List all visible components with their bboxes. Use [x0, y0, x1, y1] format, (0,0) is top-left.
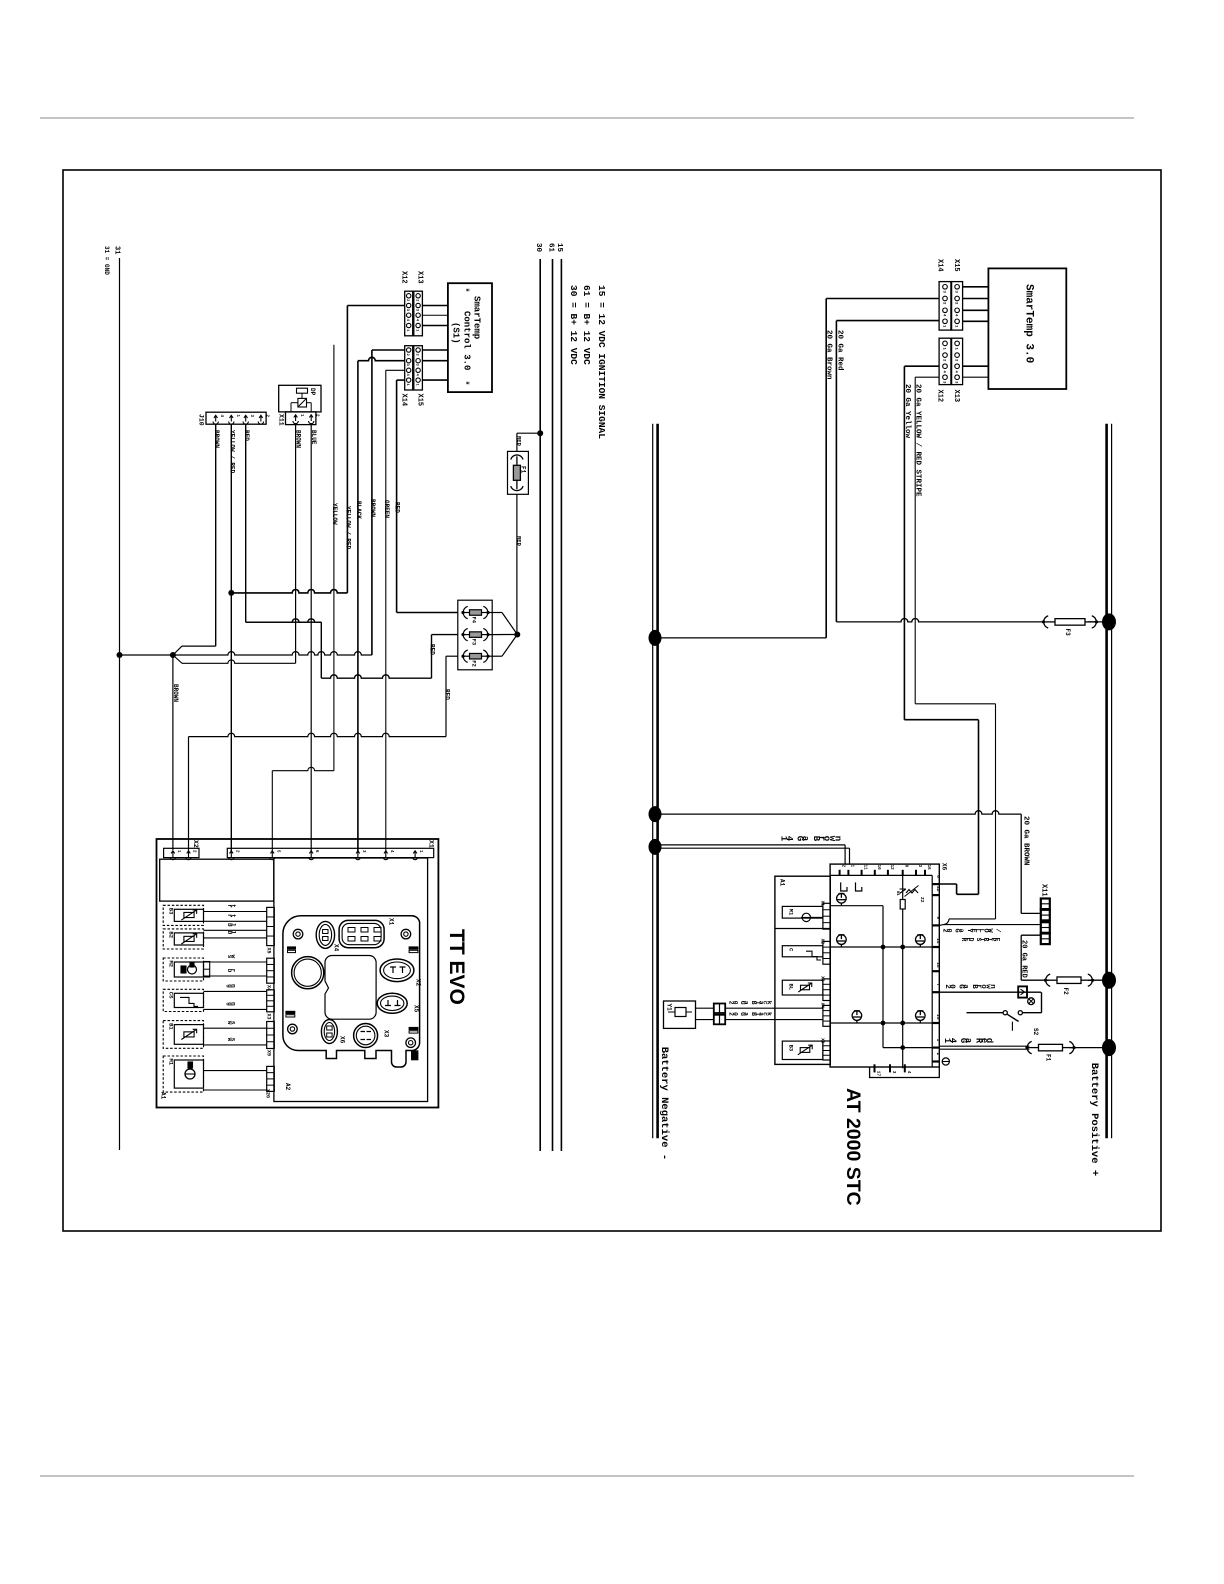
svg-text:22: 22 [935, 886, 941, 892]
svg-text:F1: F1 [1045, 1054, 1052, 1062]
bus 30 [539, 259, 541, 1151]
component B2 [163, 929, 203, 949]
wire ground run to junction [120, 654, 173, 656]
svg-text:X9: X9 [266, 1050, 272, 1056]
svg-text:F3: F3 [1064, 629, 1071, 637]
connector J10 [206, 412, 266, 424]
connector X13 left pair [414, 291, 423, 336]
wire ground diagonal up branch [173, 646, 182, 655]
svg-text:TT EVO: TT EVO [445, 929, 468, 1005]
svg-text:X6: X6 [339, 1036, 346, 1044]
svg-text:15 = 12 VDC IGNITION SIGNAL: 15 = 12 VDC IGNITION SIGNAL [596, 285, 607, 439]
svg-text:a: a [800, 836, 810, 842]
svg-text:X2: X2 [820, 939, 826, 945]
svg-text:k: k [765, 1012, 772, 1016]
svg-text:31 = GND: 31 = GND [103, 246, 110, 275]
connector X11 inline [1041, 899, 1050, 910]
wire J10 yellow/red vertical [230, 424, 232, 851]
svg-text:BROWN: BROWN [213, 430, 220, 448]
wire J10 brown vertical [215, 424, 217, 646]
svg-text:t: t [230, 904, 237, 908]
bottom rule [40, 1475, 1134, 1477]
svg-text:YELLOW / RED: YELLOW / RED [229, 430, 236, 474]
switch S2 [1041, 992, 1043, 1013]
svg-text:X1: X1 [428, 840, 435, 848]
component CS [163, 989, 203, 1011]
svg-text:20 Ga BROWN: 20 Ga BROWN [1021, 816, 1029, 866]
node fuse feed junction [514, 632, 520, 638]
plug X3 round [354, 1024, 378, 1048]
component GL glow [782, 946, 823, 957]
wire brown to X2 pin 1 [172, 655, 174, 850]
M2 sub connector [204, 962, 210, 978]
svg-text:n: n [833, 836, 843, 841]
plug X5 oval [377, 993, 407, 1013]
svg-text:17: 17 [876, 1071, 882, 1077]
svg-text:31: 31 [112, 246, 120, 254]
svg-text:11: 11 [863, 865, 867, 871]
blower circle [292, 957, 324, 989]
svg-text:B3: B3 [787, 1045, 794, 1052]
wire component row bl [204, 937, 267, 939]
svg-text:X13: X13 [416, 271, 424, 284]
connector X11 left [286, 412, 316, 425]
svg-text:DP: DP [309, 388, 316, 396]
wire ground diagonal down branch to X11 brown [173, 655, 182, 663]
plug X1 main connector [339, 920, 384, 947]
svg-text:0: 0 [731, 1012, 738, 1016]
svg-text:X3: X3 [266, 1014, 272, 1020]
svg-text:15: 15 [555, 243, 563, 253]
ECU control box [830, 864, 939, 1067]
solenoid Y1 [664, 1001, 696, 1028]
clip marks [288, 947, 296, 949]
node F3 bus junction [1102, 613, 1116, 630]
wire X11 blue vertical [310, 425, 312, 851]
svg-text:X12: X12 [935, 390, 943, 403]
svg-text:F2: F2 [470, 660, 477, 667]
svg-text:X11: X11 [1040, 884, 1048, 897]
ground reference at pin2 [942, 1058, 949, 1065]
svg-text:YELLOW: YELLOW [331, 503, 338, 525]
svg-text:15: 15 [935, 1014, 941, 1020]
svg-text:SmarTemp 3.0: SmarTemp 3.0 [1023, 284, 1035, 363]
component M2 [163, 958, 203, 981]
wire X14 pin4 red [397, 379, 405, 381]
wire 20 Ga Brown ECU pin7 to switch [939, 991, 1041, 993]
plug X6 oval [321, 1020, 337, 1044]
svg-text:A1: A1 [160, 1092, 167, 1100]
svg-text:0: 0 [945, 928, 953, 932]
wire X15 to S1 [422, 349, 448, 351]
wire 31 rail [119, 258, 121, 1150]
wire X14 pin3 green [386, 369, 405, 371]
component B1 [163, 1021, 203, 1049]
svg-text:k: k [765, 1001, 772, 1005]
component M1 [163, 1056, 203, 1092]
svg-text:X4: X4 [820, 1003, 826, 1009]
svg-text:X6: X6 [941, 863, 948, 871]
svg-text:l: l [230, 931, 237, 935]
fuse F1 right [1027, 1041, 1032, 1053]
mini connector X5 strip [267, 907, 275, 945]
svg-text:H: H [464, 289, 470, 292]
connector X15 left pair [414, 346, 423, 390]
wire component row ws [204, 1027, 267, 1029]
wire ECU diode resistor chain [902, 875, 904, 1068]
svg-text:X15: X15 [416, 394, 424, 407]
wire F2 right [489, 655, 502, 657]
wire F4 left to X14 red [397, 612, 458, 614]
svg-text:YELLOW / RED: YELLOW / RED [344, 506, 351, 550]
svg-text:4: 4 [784, 836, 794, 842]
wire component row gn [204, 990, 267, 992]
svg-text:a: a [743, 1012, 750, 1016]
svg-text:9: 9 [935, 916, 941, 919]
svg-text:t: t [230, 914, 237, 918]
wire X11 brown vertical [295, 425, 297, 664]
heater TT EVO box [157, 839, 439, 1108]
connector X1 strip [227, 848, 433, 857]
plug X4 oval [316, 921, 334, 948]
svg-text:2: 2 [935, 1053, 941, 1056]
svg-text:X3: X3 [383, 1030, 390, 1038]
svg-text:Battery Negative -: Battery Negative - [658, 1047, 670, 1160]
wire X13 to SmarTemp [963, 365, 989, 367]
node junction on 31 rail [117, 652, 123, 658]
svg-text:/: / [994, 928, 1002, 932]
svg-text:Y1: Y1 [666, 1004, 673, 1012]
svg-text:A2: A2 [284, 1083, 291, 1091]
svg-text:X12: X12 [400, 271, 408, 284]
svg-text:61 = B+ 12 VDC: 61 = B+ 12 VDC [581, 285, 592, 365]
wire M1 rows [822, 907, 824, 909]
svg-text:BROWN: BROWN [369, 499, 376, 517]
wire component row rt [204, 911, 267, 913]
component B3 [163, 905, 203, 925]
hole top-right [401, 929, 411, 939]
svg-text:RED: RED [444, 689, 451, 700]
svg-text:RED: RED [243, 430, 250, 441]
component BL flame sensor [782, 980, 823, 995]
svg-text:X4: X4 [332, 944, 339, 952]
connector X14 right pair [939, 282, 951, 331]
wire component row m1 [204, 1089, 267, 1091]
central cutout [325, 955, 376, 1019]
svg-text:E: E [993, 938, 1000, 942]
controller SmarTemp 3.0 box [988, 268, 1066, 389]
wire X12 pin2 yellow/red [347, 305, 404, 307]
svg-text:a: a [963, 1038, 973, 1044]
svg-text:SmarTemp: SmarTemp [472, 296, 482, 339]
inner blank box [160, 859, 274, 901]
wire component row rt [204, 920, 267, 922]
mini connector X3 strip [267, 990, 275, 1012]
hook pins below X6 [841, 882, 847, 891]
svg-text:RED: RED [429, 644, 436, 655]
svg-text:BLUE: BLUE [310, 430, 317, 445]
svg-text:BLACK: BLACK [355, 501, 362, 519]
svg-text:18: 18 [935, 962, 941, 968]
wire 14 Ga Red ECU pin1 to F1 [939, 1045, 1029, 1047]
battery positive bus [1105, 424, 1108, 1138]
svg-text:B2: B2 [168, 931, 175, 938]
wire pin9 stub [939, 924, 943, 927]
svg-text:F4: F4 [470, 617, 477, 624]
svg-text:12: 12 [889, 865, 893, 871]
svg-text:20 Ga YELLOW / RED STRIPE: 20 Ga YELLOW / RED STRIPE [914, 384, 922, 497]
sensor zigzag pin22 [906, 890, 918, 894]
svg-text:M2: M2 [168, 961, 175, 968]
svg-text:4: 4 [947, 1038, 957, 1044]
svg-text:n: n [230, 984, 237, 988]
svg-text:GREEN: GREEN [383, 500, 390, 518]
svg-text:AT 2000 STC: AT 2000 STC [842, 1088, 864, 1206]
svg-text:N1: N1 [895, 891, 899, 896]
svg-text:7: 7 [935, 983, 941, 986]
svg-text:l: l [230, 923, 237, 927]
svg-text:X15: X15 [952, 259, 960, 272]
fuse F1 [508, 451, 529, 494]
svg-text:61: 61 [546, 243, 554, 253]
wire yellow stub [333, 345, 335, 771]
svg-text:0: 0 [948, 984, 956, 989]
svg-text:X1: X1 [388, 918, 395, 926]
wire F4 right [489, 612, 502, 614]
svg-text:3: 3 [891, 1071, 897, 1074]
fuse F3 [463, 628, 468, 640]
svg-text:14: 14 [935, 938, 941, 944]
svg-text:X14: X14 [935, 259, 943, 272]
connector X4 mini [823, 1005, 830, 1026]
svg-text:Z2: Z2 [919, 897, 925, 903]
svg-text:X2: X2 [192, 840, 199, 848]
wire 20 Ga Yellow from X12 pin3 [904, 365, 939, 367]
svg-text:a: a [743, 1001, 750, 1005]
svg-text:X5: X5 [413, 1005, 420, 1013]
ECU bottom extension [870, 1067, 940, 1078]
svg-text:BROWN: BROWN [172, 684, 179, 702]
fuse F2 [463, 650, 468, 662]
wire X14 pin1 brown [372, 349, 405, 351]
svg-text:M1: M1 [168, 1059, 175, 1066]
wire J10 red [245, 424, 247, 622]
ECU interior wiring [830, 905, 883, 907]
svg-text:BL: BL [787, 984, 794, 991]
svg-text:J10: J10 [198, 414, 205, 426]
svg-text:Battery Positive +: Battery Positive + [1088, 1063, 1100, 1176]
svg-text:F3: F3 [470, 639, 477, 646]
svg-text:RED: RED [516, 436, 523, 447]
wire 20 Ga Black rows [696, 1007, 714, 1009]
svg-text:RED: RED [394, 502, 401, 513]
wire X15 to SmarTemp [963, 286, 989, 288]
mini connector X4 strip [267, 958, 275, 983]
wire X14 pin2 black [358, 357, 405, 360]
wire F1 down to fuse block junction [516, 494, 518, 634]
svg-text:n: n [988, 984, 996, 989]
wire 14 Ga Brown battery negative to X6 [649, 839, 662, 855]
connector X1 mini [823, 903, 830, 929]
bus 61 [552, 259, 554, 1151]
wire component row bl [204, 929, 267, 931]
controller S1 SmarTemp Control 3.0 [448, 283, 492, 392]
wire component row gn [204, 1008, 267, 1010]
divider panel [274, 858, 428, 1102]
connector on brown wire [1018, 986, 1027, 997]
hole bottom-right [406, 1038, 416, 1048]
fuse F3 to battery positive [836, 619, 1044, 622]
svg-text:10: 10 [876, 865, 880, 871]
svg-text:RED: RED [516, 536, 523, 547]
svg-text:a: a [961, 984, 969, 989]
svg-text:4: 4 [906, 1071, 912, 1074]
svg-text:F1: F1 [520, 466, 527, 474]
connector X12 right pair [939, 338, 951, 384]
wire ground main run to X14 brown [173, 652, 372, 655]
heater plate outline [283, 916, 420, 1067]
wire F3 right [489, 634, 517, 636]
mini connector X9 strip [267, 1022, 275, 1049]
svg-text:CS: CS [168, 992, 175, 999]
connector X15 right pair [952, 282, 963, 331]
wire 20 Ga Brown to X14 pin2 [826, 298, 939, 300]
svg-text:X1: X1 [820, 901, 826, 907]
indicator lamp [1028, 998, 1035, 1005]
wire component row br [204, 975, 267, 977]
connector X12 left pair [405, 291, 413, 336]
wire battery negative to 20 Ga Brown [649, 630, 662, 646]
svg-text:30 = B+ 12 VDC: 30 = B+ 12 VDC [568, 285, 579, 365]
module DP [279, 385, 321, 412]
svg-text:M1: M1 [787, 909, 794, 916]
svg-text:w: w [230, 955, 237, 959]
svg-text:X11: X11 [277, 414, 284, 426]
svg-text:s: s [230, 1038, 237, 1042]
svg-text:S2: S2 [1032, 1028, 1039, 1036]
svg-text:X9: X9 [820, 1038, 826, 1044]
connector X3 mini [823, 979, 830, 1001]
svg-text:r: r [230, 969, 237, 973]
heater A1 box [775, 876, 830, 1064]
wire component row ws [204, 1044, 267, 1046]
svg-text:a: a [957, 928, 965, 932]
svg-text:D: D [967, 938, 974, 942]
wire component row m1 [204, 1070, 267, 1072]
svg-text:20 Ga Brown: 20 Ga Brown [824, 330, 832, 380]
top rule [40, 117, 1134, 119]
svg-text:B1: B1 [168, 1023, 175, 1030]
svg-text:20 Ga Yellow: 20 Ga Yellow [903, 384, 911, 439]
component B3 sensor [782, 1041, 823, 1059]
fuse F4 [463, 606, 468, 618]
svg-text:X3: X3 [820, 976, 826, 982]
svg-text:n: n [230, 1002, 237, 1006]
connector X13 right pair [952, 338, 963, 384]
bus 15 [560, 259, 562, 1151]
svg-text:F2: F2 [1062, 988, 1069, 996]
plug X2 oval [380, 959, 414, 982]
wire F2 left red loop to X2 pin [446, 655, 458, 657]
svg-text:d: d [984, 1038, 994, 1043]
hole top-left [293, 929, 303, 939]
component M1 motor [782, 906, 823, 918]
svg-text:Control 3.0: Control 3.0 [461, 311, 471, 370]
svg-text:s: s [230, 1021, 237, 1025]
svg-text:20 Ga RED: 20 Ga RED [1020, 940, 1028, 978]
svg-text:X5: X5 [266, 948, 272, 954]
fuse F2 [1046, 974, 1051, 986]
connector X2 mini [823, 941, 830, 964]
svg-text:20 Ga Red: 20 Ga Red [835, 330, 843, 371]
connector X9 mini [823, 1041, 830, 1060]
svg-text:6: 6 [935, 875, 941, 878]
wire 20 Ga RED X11 to F2 [1021, 934, 1041, 936]
hole bottom-left [288, 1024, 298, 1034]
wire 20 Ga Red to X14 pin4 [836, 320, 939, 322]
connector X2 strip [164, 848, 199, 857]
fuse block F4 F3 F2 [458, 600, 492, 670]
drawing border frame [63, 170, 1161, 1231]
mini connector X20 strip [267, 1066, 275, 1091]
svg-text:A1: A1 [779, 879, 786, 887]
node junction yellow/red [228, 590, 234, 596]
ECU right edge pins [932, 883, 939, 885]
wire 20 Ga Yellow/Red stripe from X12 pin4 [915, 376, 939, 378]
svg-text:H: H [464, 382, 470, 385]
connector X8 inline [714, 1004, 725, 1014]
battery negative bus [652, 424, 654, 1138]
wire bus30 to F1 [516, 433, 518, 451]
svg-text:(S1): (S1) [450, 322, 460, 344]
wire yellow/red stripe to X11 [943, 924, 1041, 926]
wire component row sw [204, 961, 267, 963]
wire X13 to S1 [422, 305, 448, 307]
connector X14 left pair [405, 346, 413, 390]
svg-text:X2: X2 [414, 979, 421, 987]
svg-text:BROWN: BROWN [295, 430, 302, 448]
wire 20 Ga BROWN battery negative branch [649, 806, 662, 822]
node ground junction [170, 652, 176, 658]
svg-text:0: 0 [731, 1001, 738, 1005]
svg-text:30: 30 [534, 243, 542, 253]
svg-text:B3: B3 [168, 908, 175, 915]
svg-text:16: 16 [926, 865, 930, 871]
svg-text:X13: X13 [952, 390, 960, 403]
svg-text:X14: X14 [400, 394, 408, 407]
svg-text:1: 1 [935, 1039, 941, 1042]
